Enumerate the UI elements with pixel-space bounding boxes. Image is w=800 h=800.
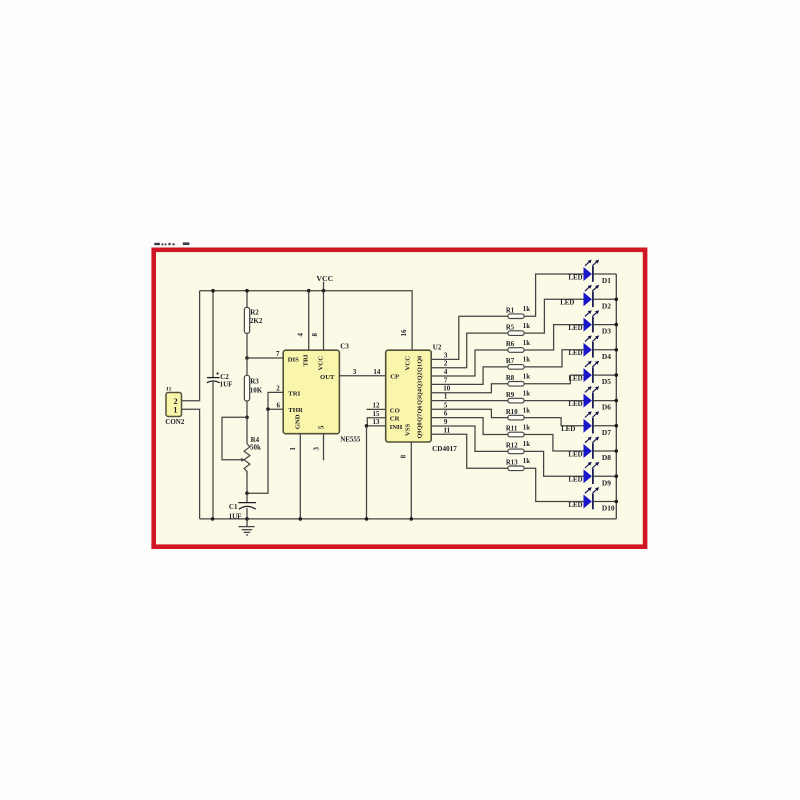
junction C2 top rail [211,289,215,293]
resistor R2 [244,307,249,333]
svg-text:TRI: TRI [288,391,300,398]
wire D10 cathode to bus [593,501,616,503]
wire R12 to LED D9 [524,451,583,476]
svg-text:Q9: Q9 [417,431,424,439]
wire R8 to LED D5 [524,375,583,384]
LED D3 [584,310,600,332]
LED D6 [584,386,600,408]
wire C1 top lead [246,493,248,502]
svg-text:D8: D8 [602,453,611,462]
svg-text:3: 3 [353,368,357,376]
svg-text:R6: R6 [506,341,515,348]
junction bus D5 [615,373,619,377]
svg-text:R11: R11 [506,426,518,433]
junction C2 ground rail [211,517,215,521]
wire R2 top lead [246,291,248,308]
svg-text:R8: R8 [506,375,515,382]
svg-text:D7: D7 [602,428,611,437]
svg-text:CON2: CON2 [165,418,185,426]
capacitor C2 plates [207,378,220,383]
wire pin6 (THR) [267,408,284,410]
LED D1 [584,260,600,282]
svg-text:12: 12 [373,401,381,409]
wire R7 to LED D4 [524,350,583,367]
svg-text:R1: R1 [506,307,515,314]
wire VCC top rail [200,291,413,351]
resistor R3 [244,375,249,401]
junction bus D9 [615,474,619,478]
svg-text:Q4: Q4 [417,389,424,397]
junction R2 top rail [245,289,249,293]
svg-text:8: 8 [400,454,408,458]
junction bus D4 [615,348,619,352]
wire CO pin12 stub [367,408,386,410]
svg-text:Q7: Q7 [417,414,424,422]
svg-text:VCC: VCC [405,356,412,371]
connector J1 body [166,393,182,417]
wire Q5 to R9 [431,400,508,402]
junction pin4 on VCC rail [307,289,311,293]
LED D8 [584,437,600,459]
wire R5 to LED D2 [524,299,583,333]
svg-text:5: 5 [444,401,448,409]
svg-text:D3: D3 [602,327,611,336]
svg-text:LED: LED [568,376,582,383]
op-amp-style IC U1 NE555 body [283,350,339,434]
wire R2 bottom to node DIS [246,333,248,358]
wire R9 to LED D6 [524,400,583,402]
svg-text:2: 2 [276,385,280,393]
LED D5 [584,361,600,383]
svg-text:9: 9 [444,418,448,426]
resistor R1 [508,314,524,319]
resistor R8 [508,382,524,387]
svg-text:3: 3 [313,446,321,450]
svg-text:LED: LED [568,274,582,281]
wire Q2 to R6 [431,350,508,376]
svg-text:1k: 1k [523,407,530,414]
wire D1 cathode to bus [593,273,616,275]
svg-text:1k: 1k [523,323,530,330]
wire Q8 to R12 [431,426,508,451]
wire OUT pin3 to CP pin14 [339,375,385,377]
wire Q6 to R10 [431,409,508,417]
junction VCC stub/pin8 [322,289,326,293]
svg-text:TRI: TRI [303,354,310,366]
wire NE555 pin1 to ground [299,434,301,519]
svg-text:C1: C1 [229,503,238,511]
wire R11 to LED D8 [524,435,583,452]
junction node A (R3/R4/wiper) [245,416,249,420]
C2 polarity mark [217,373,219,375]
svg-text:16: 16 [400,329,408,337]
resistor R7 [508,365,524,370]
junction bus D7 [615,424,619,428]
wire C2 bottom lead [212,382,214,519]
svg-text:2K2: 2K2 [250,317,263,325]
svg-text:LED: LED [568,502,582,509]
resistor R11 [508,432,524,437]
wire NE555 pin5 stub [323,434,325,461]
svg-text:6: 6 [444,410,448,418]
svg-text:GND: GND [295,414,302,429]
svg-text:5: 5 [317,425,325,429]
svg-text:1UF: 1UF [220,381,233,389]
wire D8 cathode to bus [593,450,616,452]
wire INH pin13 [367,425,386,427]
svg-text:R5: R5 [506,324,515,331]
svg-text:LED: LED [568,401,582,408]
svg-text:7: 7 [444,376,448,384]
junction bus D3 [615,323,619,327]
svg-text:R12: R12 [506,443,518,450]
resistor R10 [508,415,524,420]
wire pins2+6 down to node B [247,409,268,493]
svg-text:R7: R7 [506,358,515,365]
red border frame [154,250,645,547]
svg-text:4: 4 [296,333,304,337]
svg-text:LED: LED [561,426,575,433]
wire LED cathode bus [615,274,617,519]
svg-text:D9: D9 [602,478,611,487]
LED D2 [584,285,600,307]
svg-text:CR: CR [390,416,400,423]
svg-text:INH: INH [390,424,403,431]
svg-text:4: 4 [444,368,448,376]
resistor R13 [508,466,524,471]
wire Q4 to R8 [431,384,508,393]
wire D5 cathode to bus [593,374,616,376]
svg-text:7: 7 [276,350,280,358]
svg-text:VCC: VCC [318,356,325,371]
svg-text:1: 1 [444,393,448,401]
svg-text:3: 3 [444,351,448,359]
svg-text:THR: THR [288,407,303,414]
wire C2 top lead [212,291,214,378]
wire node DIS to pin 7 [247,357,283,359]
junction node DIS [245,356,249,360]
wire NE555 pin4 to rail [308,291,310,351]
svg-text:Q6: Q6 [417,406,424,414]
resistor R9 [508,398,524,403]
junction pin2/pin6 tie [266,407,270,411]
svg-text:Q3: Q3 [417,381,424,389]
svg-text:1k: 1k [523,458,530,465]
svg-text:J1: J1 [166,387,172,393]
wire Q3 to R7 [431,367,508,385]
cropped label text fragments [154,242,189,245]
resistor R12 [508,449,524,454]
svg-text:Q2: Q2 [417,372,424,380]
wire D6 cathode to bus [593,400,616,402]
svg-text:LED: LED [568,350,582,357]
capacitor C1 plates [238,503,256,510]
junction node B (R4/C1/THR) [245,491,249,495]
svg-text:NE555: NE555 [340,436,361,444]
svg-text:1k: 1k [523,390,530,397]
svg-text:1k: 1k [523,306,530,313]
svg-text:11: 11 [443,426,450,434]
svg-text:1: 1 [173,406,177,415]
resistor R6 [508,348,524,353]
R4 wiper arrowhead [241,458,245,462]
svg-text:1k: 1k [523,441,530,448]
svg-text:1k: 1k [523,374,530,381]
svg-text:2: 2 [444,360,448,368]
wire Q0 to R1 [431,316,508,359]
junction bus D2 [615,298,619,302]
svg-text:D1: D1 [602,276,611,285]
wire D2 cathode to bus [593,298,616,300]
svg-text:R13: R13 [506,460,518,467]
wire VCC stub [323,282,325,291]
wire R13 to LED D10 [524,468,583,501]
wire CD4017 pin8 to ground [410,442,412,519]
LED D10 [584,487,600,509]
wire R4 wiper loop [222,417,247,460]
svg-text:6: 6 [277,401,281,409]
wire R1 to LED D1 [524,274,583,316]
junction CR/INH tie [365,424,369,428]
svg-text:D10: D10 [602,504,615,513]
LED D4 [584,335,600,357]
svg-text:1k: 1k [523,357,530,364]
svg-text:13: 13 [373,418,381,426]
svg-text:LED: LED [560,300,574,307]
wire C1 bottom lead [246,508,248,519]
wire R4 top lead [246,417,248,444]
svg-text:R2: R2 [250,308,259,316]
junction bus D10 [615,500,619,504]
svg-text:U2: U2 [433,343,442,351]
svg-text:50k: 50k [250,444,261,452]
wire NE555 pin8 to rail [323,291,325,351]
wire D7 cathode to bus [593,425,616,427]
svg-text:DIS: DIS [288,357,299,364]
svg-text:D2: D2 [602,301,611,310]
wire CR pin15 [367,418,385,426]
svg-text:14: 14 [373,368,381,376]
resistor R5 [508,331,524,336]
wire bottom ground rail [200,518,617,520]
svg-text:10: 10 [443,385,451,393]
svg-text:CD4017: CD4017 [432,445,457,453]
svg-text:CO: CO [390,407,400,414]
wire R3 bottom to node A [246,401,248,417]
svg-text:1: 1 [289,447,297,451]
svg-text:R3: R3 [250,377,259,385]
svg-text:OUT: OUT [320,374,335,381]
svg-text:15: 15 [373,410,381,418]
svg-text:1k: 1k [523,424,530,431]
svg-text:D6: D6 [602,403,611,412]
wire R3 top lead [246,358,248,375]
svg-text:LED: LED [568,451,582,458]
svg-text:1UF: 1UF [229,513,242,521]
wire Q7 to R11 [431,418,508,435]
wire Q9 to R13 [431,434,508,468]
svg-text:Q0: Q0 [417,356,424,364]
potentiometer R4 zigzag [244,444,250,473]
wire D9 cathode to bus [593,475,616,477]
svg-text:R10: R10 [506,409,518,416]
svg-text:D4: D4 [602,352,611,361]
wire CR+INH down to ground rail [366,426,368,519]
wire pin2 to pin6 tie [268,392,283,409]
svg-text:1k: 1k [523,340,530,347]
junction bus D8 [615,449,619,453]
svg-text:CP: CP [390,374,399,381]
svg-text:Q5: Q5 [417,397,424,405]
svg-text:LED: LED [568,477,582,484]
svg-text:D5: D5 [602,377,611,386]
wire D4 cathode to bus [593,349,616,351]
junction CR/INH ground rail [365,517,369,521]
wire Q1 to R5 [431,333,508,368]
LED D9 [584,462,600,484]
LED D7 [584,411,600,433]
svg-text:VCC: VCC [316,274,333,283]
wire left ground rail (J1 pin1 to ground rail) [182,409,200,519]
svg-text:8: 8 [311,333,319,337]
junction C1 ground rail [245,517,249,521]
svg-text:C3: C3 [340,343,349,351]
svg-text:LED: LED [568,325,582,332]
wire R6 to LED D3 [524,325,583,350]
wire R10 to LED D7 [524,418,583,426]
ground symbol [239,519,255,535]
wire left supply rail (J1 pin2 to VCC rail) [182,291,200,401]
svg-text:R9: R9 [506,392,515,399]
svg-text:Q8: Q8 [417,422,424,430]
svg-text:10K: 10K [250,386,263,394]
counter IC U2 CD4017 body [386,350,432,442]
junction CD4017 pin8 ground rail [410,517,414,521]
wire R4 bottom lead [246,471,248,493]
svg-text:Q1: Q1 [417,364,424,372]
svg-text:VSS: VSS [405,423,412,436]
schematic background [156,252,643,545]
junction pin1 ground rail [299,517,303,521]
junction bus D6 [615,399,619,403]
wire D3 cathode to bus [593,324,616,326]
